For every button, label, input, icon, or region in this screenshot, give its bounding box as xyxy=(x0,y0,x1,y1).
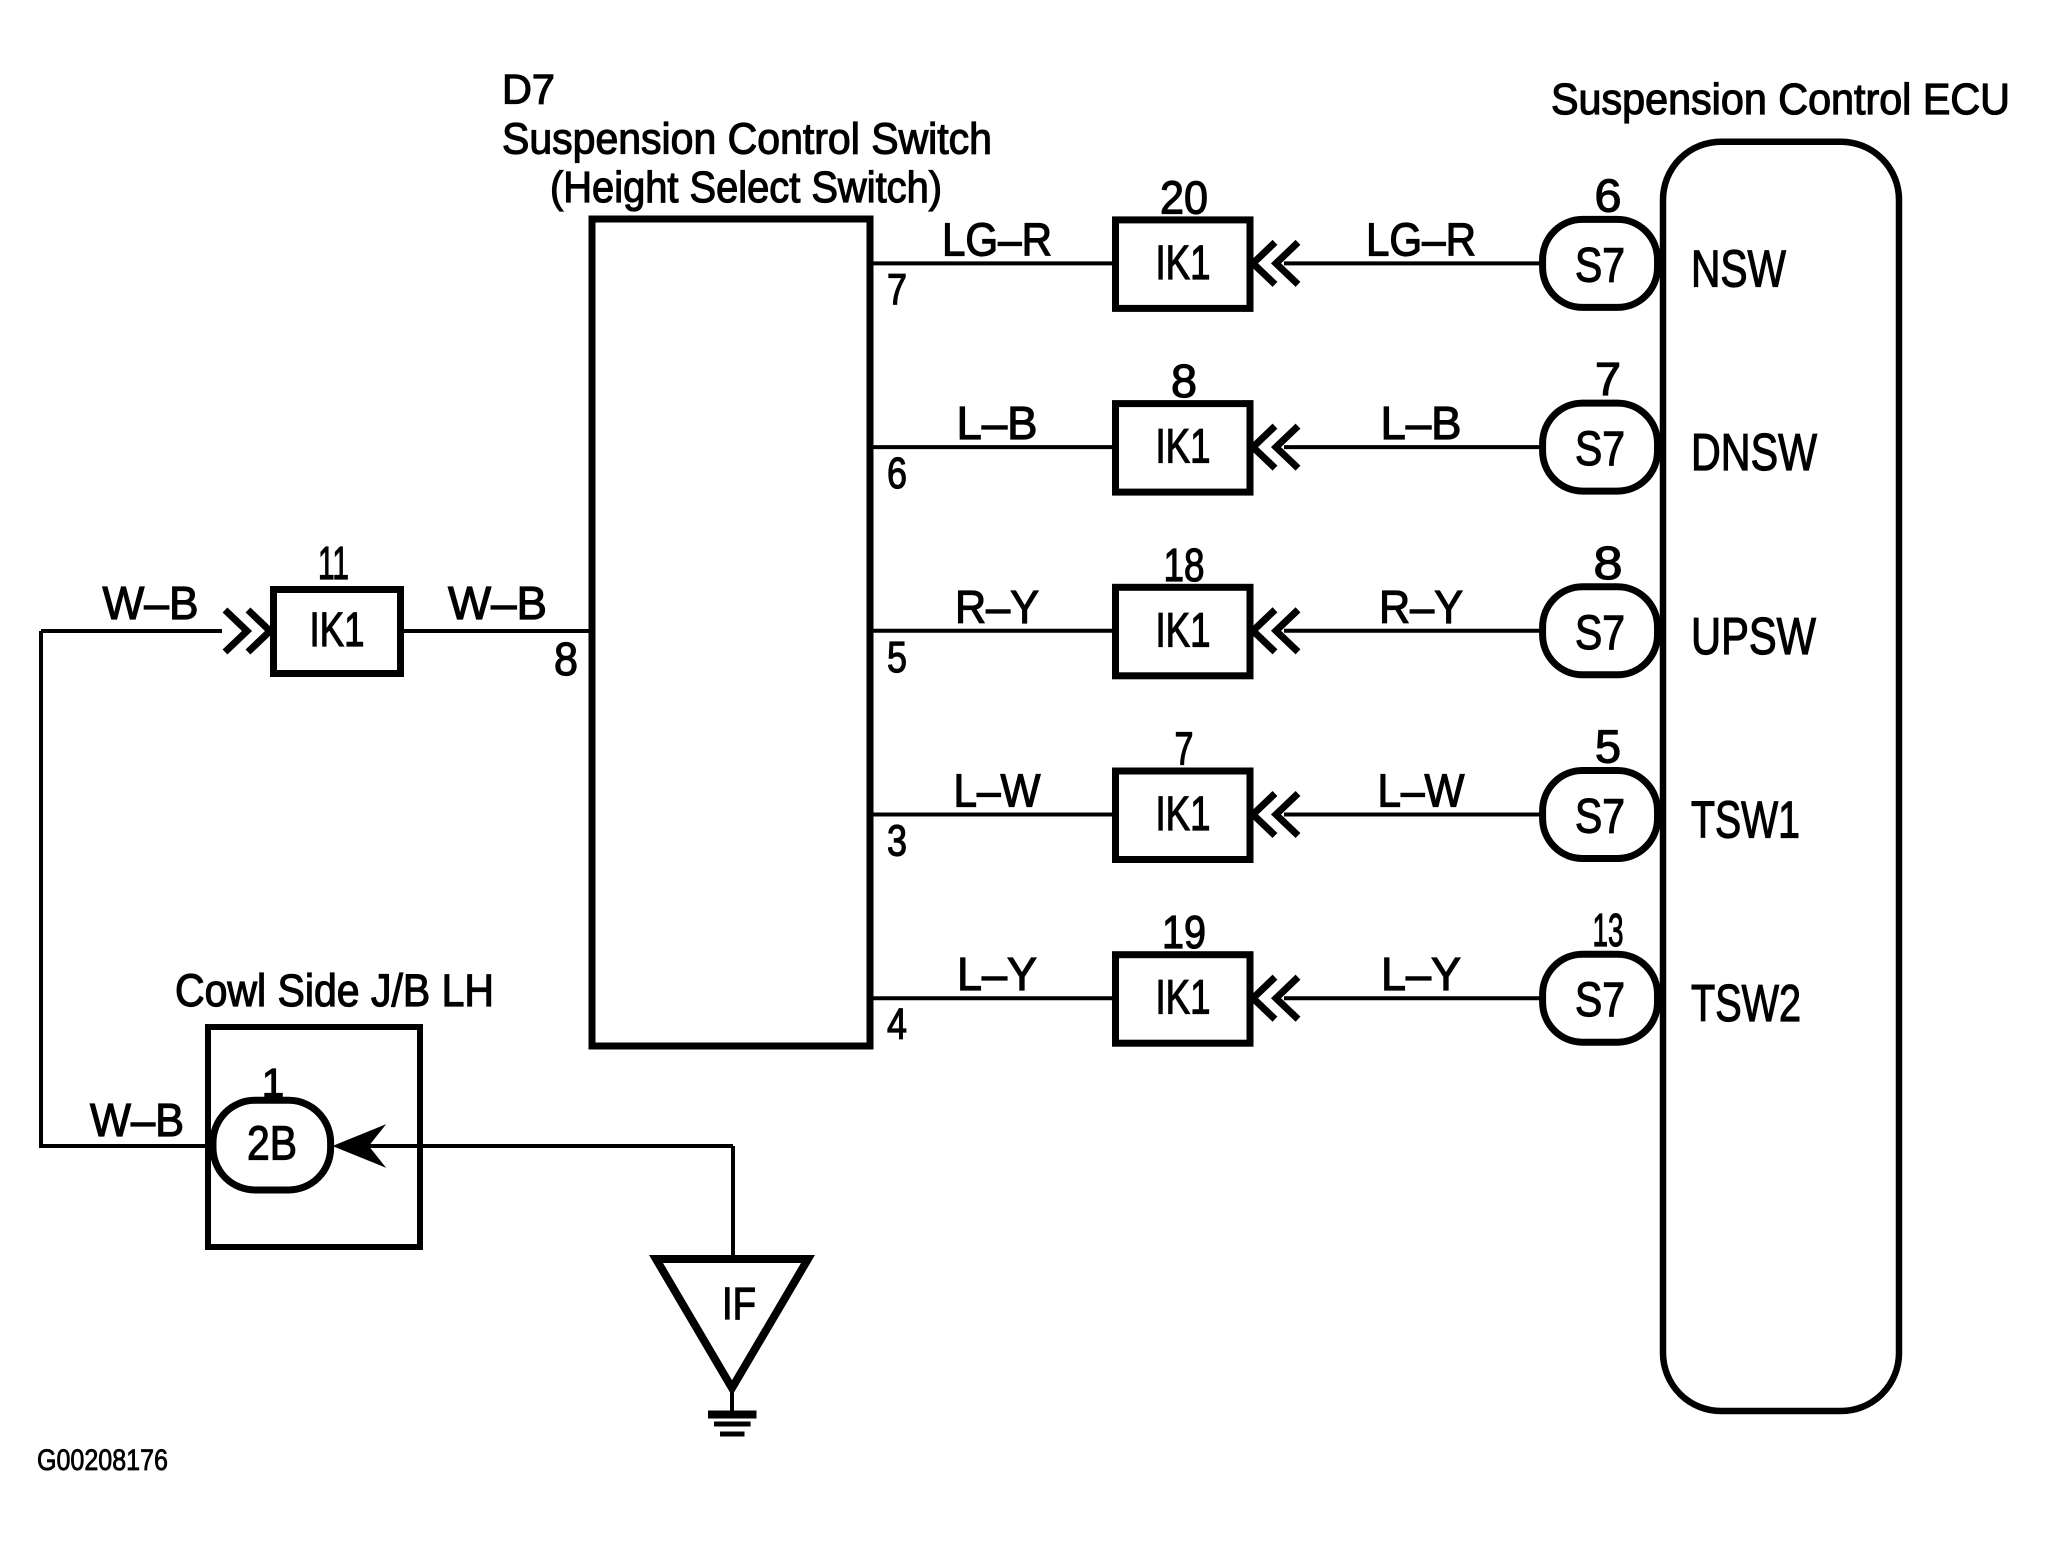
svg-text:Suspension Control ECU: Suspension Control ECU xyxy=(1551,75,2010,124)
svg-text:18: 18 xyxy=(1164,539,1205,591)
svg-text:6: 6 xyxy=(887,449,907,498)
svg-text:7: 7 xyxy=(1595,353,1621,405)
svg-text:S7: S7 xyxy=(1575,791,1625,844)
svg-text:1: 1 xyxy=(262,1061,284,1105)
svg-text:UPSW: UPSW xyxy=(1691,608,1816,666)
svg-text:S7: S7 xyxy=(1575,974,1625,1027)
svg-text:L–Y: L–Y xyxy=(957,948,1037,1000)
svg-text:IK1: IK1 xyxy=(1156,788,1211,841)
svg-text:7: 7 xyxy=(1175,723,1194,775)
svg-text:20: 20 xyxy=(1160,171,1208,223)
svg-text:IK1: IK1 xyxy=(1156,972,1211,1025)
svg-text:G00208176: G00208176 xyxy=(37,1444,168,1477)
svg-text:IK1: IK1 xyxy=(1156,237,1211,290)
svg-text:LG–R: LG–R xyxy=(942,213,1052,265)
svg-text:S7: S7 xyxy=(1575,423,1625,476)
svg-text:8: 8 xyxy=(1171,355,1197,407)
svg-text:W–B: W–B xyxy=(90,1094,184,1146)
svg-text:D7: D7 xyxy=(502,66,555,113)
svg-text:L–B: L–B xyxy=(957,397,1038,449)
svg-text:IK1: IK1 xyxy=(1156,421,1211,474)
svg-text:13: 13 xyxy=(1593,904,1624,956)
svg-text:5: 5 xyxy=(887,633,907,682)
svg-text:TSW2: TSW2 xyxy=(1691,975,1801,1033)
svg-text:LG–R: LG–R xyxy=(1366,213,1476,265)
svg-text:6: 6 xyxy=(1595,169,1622,221)
svg-text:S7: S7 xyxy=(1575,607,1625,660)
svg-text:8: 8 xyxy=(1594,537,1623,589)
svg-text:5: 5 xyxy=(1595,721,1621,773)
svg-text:L–W: L–W xyxy=(954,765,1042,817)
svg-text:IF: IF xyxy=(722,1278,756,1329)
svg-text:S7: S7 xyxy=(1575,239,1625,292)
svg-text:NSW: NSW xyxy=(1691,240,1786,298)
svg-text:Suspension Control Switch: Suspension Control Switch xyxy=(502,115,992,164)
svg-text:L–B: L–B xyxy=(1381,397,1462,449)
svg-text:R–Y: R–Y xyxy=(955,581,1039,633)
svg-text:7: 7 xyxy=(887,265,907,314)
svg-text:DNSW: DNSW xyxy=(1691,424,1817,482)
svg-text:Cowl Side J/B LH: Cowl Side J/B LH xyxy=(175,965,494,1016)
svg-text:IK1: IK1 xyxy=(1156,604,1211,657)
svg-text:8: 8 xyxy=(554,633,578,685)
svg-text:R–Y: R–Y xyxy=(1379,581,1463,633)
svg-text:IK1: IK1 xyxy=(310,604,365,657)
svg-text:L–Y: L–Y xyxy=(1381,948,1461,1000)
svg-text:TSW1: TSW1 xyxy=(1691,792,1800,850)
svg-text:19: 19 xyxy=(1162,906,1206,958)
svg-text:2B: 2B xyxy=(247,1117,297,1170)
svg-text:3: 3 xyxy=(887,817,907,866)
svg-text:(Height Select Switch): (Height Select Switch) xyxy=(550,163,942,212)
svg-text:W–B: W–B xyxy=(448,577,547,629)
svg-text:W–B: W–B xyxy=(103,577,199,629)
svg-text:L–W: L–W xyxy=(1378,765,1466,817)
svg-text:4: 4 xyxy=(887,1000,907,1049)
svg-text:11: 11 xyxy=(318,537,349,589)
